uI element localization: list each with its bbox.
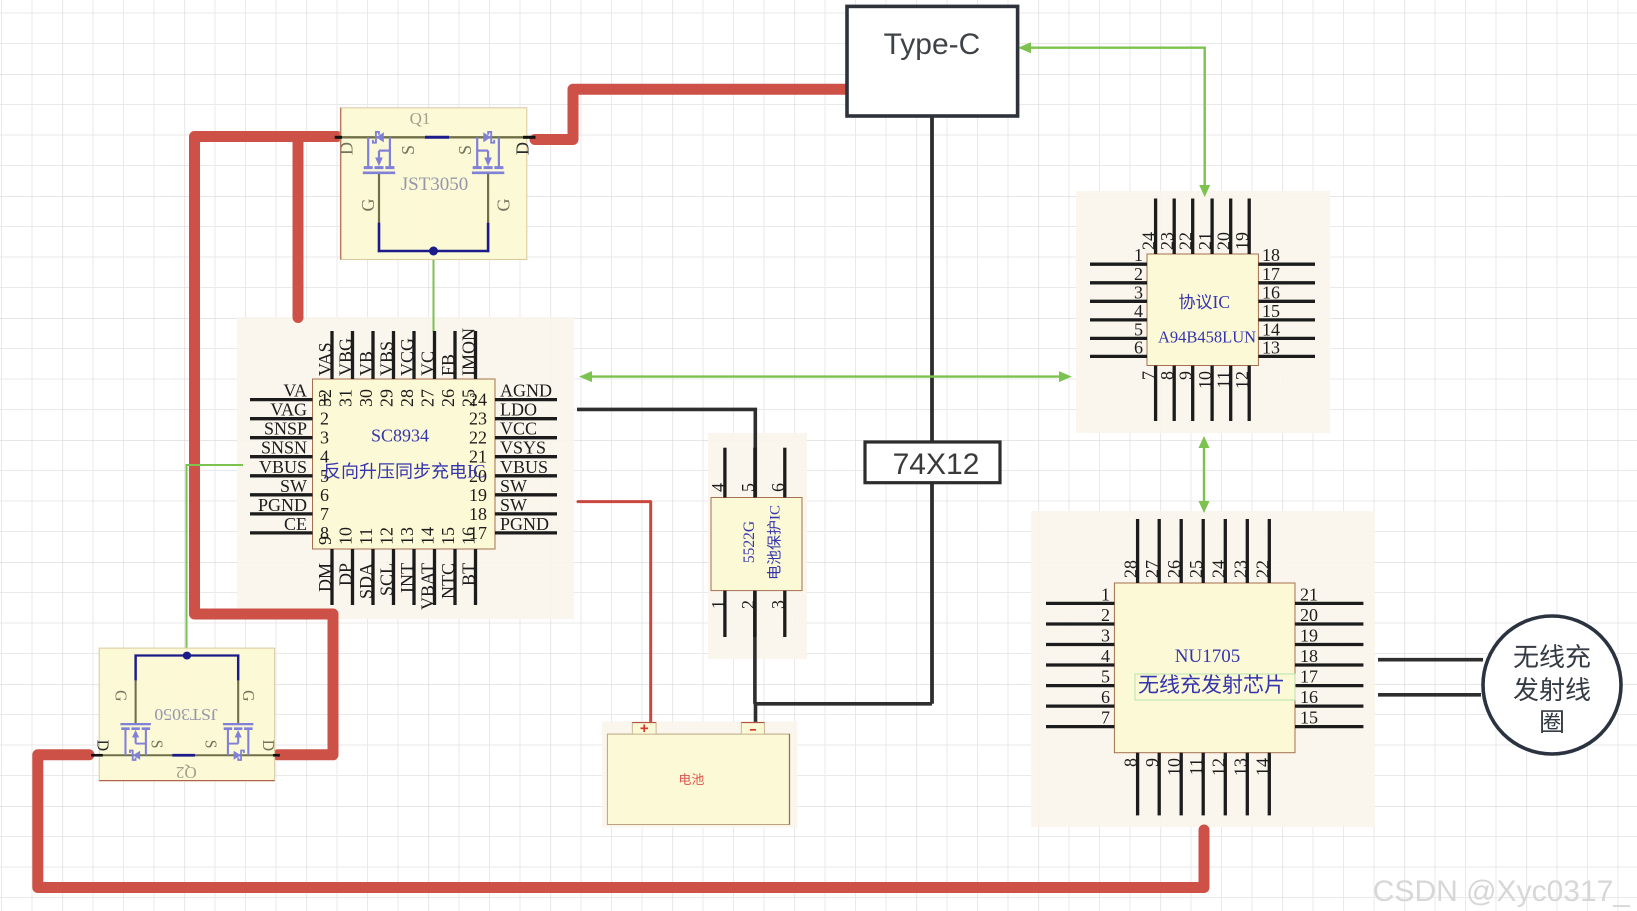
svg-text:SNSN: SNSN xyxy=(261,438,307,458)
wire: black Type-C down to junction xyxy=(930,116,934,704)
svg-text:23: 23 xyxy=(1157,232,1177,250)
SC8934 pin 25 IMON xyxy=(474,331,477,379)
protocol IC pin 19 xyxy=(1248,199,1251,255)
svg-text:7: 7 xyxy=(1139,371,1159,380)
NU1705 pin 23 xyxy=(1246,519,1249,583)
NU1705 pin 16 xyxy=(1295,704,1363,707)
label 74X12 box xyxy=(865,442,1000,483)
green wire Q2 gates to SC8934 VBUS xyxy=(187,465,244,654)
svg-text:A94B458LUN: A94B458LUN xyxy=(1158,328,1256,347)
svg-text:30: 30 xyxy=(356,389,376,407)
svg-text:23: 23 xyxy=(1230,560,1250,578)
svg-text:2: 2 xyxy=(1134,264,1143,284)
svg-text:3: 3 xyxy=(320,428,329,448)
svg-text:8: 8 xyxy=(1121,758,1141,767)
protocol IC pin 16 xyxy=(1258,300,1315,303)
SC8934 pin 31 VBG xyxy=(351,331,354,379)
Q1 gate junction xyxy=(429,247,438,256)
SC8934 pin 20 VBUS xyxy=(495,474,557,477)
protocol IC pin 20 xyxy=(1229,199,1232,255)
protocol IC pin 21 xyxy=(1210,199,1213,255)
svg-text:9: 9 xyxy=(1176,371,1196,380)
svg-text:16: 16 xyxy=(1300,687,1318,707)
SC8934 pin 6 SW xyxy=(250,493,313,496)
NU1705 pin 27 xyxy=(1158,519,1161,583)
protocol IC pin 9 xyxy=(1191,366,1194,422)
svg-text:29: 29 xyxy=(377,389,397,407)
svg-text:CE: CE xyxy=(284,514,307,534)
protocol IC pin 24 xyxy=(1154,199,1157,255)
SC8934 pin 2 VAG xyxy=(250,417,313,420)
Q1 left D stub xyxy=(335,136,342,139)
SC8934 pin 3 SNSP xyxy=(250,436,313,439)
svg-text:10: 10 xyxy=(336,527,356,545)
5522G pin 4 xyxy=(723,448,726,498)
svg-text:DM: DM xyxy=(315,563,335,592)
svg-text:SW: SW xyxy=(500,476,527,496)
SC8934 pin 27 VC xyxy=(433,331,436,379)
svg-text:NTC: NTC xyxy=(438,563,458,599)
Q1 right D stub xyxy=(523,136,536,139)
SC8934 pin 18 SW xyxy=(495,512,557,515)
svg-text:D: D xyxy=(513,142,533,155)
svg-text:JST3050: JST3050 xyxy=(401,174,469,195)
svg-text:BT: BT xyxy=(459,563,479,586)
svg-text:24: 24 xyxy=(1208,560,1228,578)
svg-text:31: 31 xyxy=(336,389,356,407)
svg-text:5: 5 xyxy=(1134,319,1143,339)
SC8934 pin 24 AGND xyxy=(495,398,557,401)
svg-text:D: D xyxy=(337,142,357,155)
svg-text:IC: IC xyxy=(467,463,486,483)
NU1705 pin 4 xyxy=(1046,663,1114,666)
NU1705 pin 25 xyxy=(1202,519,1205,583)
SC8934 pin 1 VA xyxy=(250,398,313,401)
protocol IC pin 18 xyxy=(1258,263,1315,266)
NU1705 pin 28 xyxy=(1136,519,1139,583)
svg-text:2: 2 xyxy=(320,409,329,429)
NU1705 description selection box xyxy=(1135,674,1295,700)
svg-text:CSDN @Xyc0317_: CSDN @Xyc0317_ xyxy=(1373,875,1632,908)
NU1705 pin 9 xyxy=(1158,753,1161,816)
NU1705 pin 1 xyxy=(1046,602,1114,605)
SC8934 pin 8 CE xyxy=(250,531,313,534)
5522G pin 5 xyxy=(753,448,756,498)
NU1705 pin 24 xyxy=(1224,519,1227,583)
svg-text:SDA: SDA xyxy=(356,563,376,599)
svg-text:VA: VA xyxy=(283,381,307,401)
svg-text:6: 6 xyxy=(320,485,329,505)
NU1705 pin 11 xyxy=(1202,753,1205,816)
svg-text:5: 5 xyxy=(738,483,758,492)
svg-text:20: 20 xyxy=(1214,232,1234,250)
svg-text:G: G xyxy=(494,199,514,212)
Q1 right MOSFET xyxy=(498,137,500,166)
NU1705 pin 10 xyxy=(1180,753,1183,816)
NU1705 pin 13 xyxy=(1246,753,1249,816)
Q1 left MOSFET xyxy=(367,137,369,166)
svg-text:14: 14 xyxy=(1262,319,1280,339)
svg-text:S: S xyxy=(398,145,418,155)
svg-text:22: 22 xyxy=(1176,232,1196,250)
IC protocol A94B458LUN body xyxy=(1147,254,1258,366)
NU1705 pin 19 xyxy=(1295,643,1363,646)
svg-text:26: 26 xyxy=(438,389,458,407)
svg-text:G: G xyxy=(358,199,378,212)
svg-text:AGND: AGND xyxy=(500,381,552,401)
SC8934 pin 9 DM xyxy=(330,549,333,605)
protocol IC pin 17 xyxy=(1258,281,1315,284)
SC8934 pin 22 VCC xyxy=(495,436,557,439)
wire: thick red Q2 left D big bottom loop to NU1705 pin 11 xyxy=(38,755,1204,888)
svg-text:17: 17 xyxy=(1300,667,1318,687)
svg-text:20: 20 xyxy=(1300,605,1318,625)
protocol IC pin 13 xyxy=(1258,355,1315,358)
svg-text:19: 19 xyxy=(1300,626,1318,646)
svg-text:5522G: 5522G xyxy=(741,521,758,563)
wire: thick red Q1 right D to Type-C xyxy=(535,89,849,139)
NU1705 description 无线充发射芯片 xyxy=(1139,674,1283,693)
wire: coil connection 2 xyxy=(1378,693,1481,697)
NU1705 pin 8 xyxy=(1136,753,1139,816)
svg-text:23: 23 xyxy=(469,409,487,429)
SC8934 pin 7 PGND xyxy=(250,512,313,515)
Q1 D-S rail xyxy=(335,136,532,138)
battery - tab xyxy=(741,722,764,734)
svg-text:27: 27 xyxy=(418,389,438,407)
coil 无线充发射线圈 xyxy=(1483,616,1621,754)
svg-text:12: 12 xyxy=(1208,758,1228,776)
protocol IC pin 2 xyxy=(1090,281,1147,284)
svg-text:15: 15 xyxy=(1262,301,1280,321)
svg-text:9: 9 xyxy=(1142,758,1162,767)
SC8934 pin 5 VBUS xyxy=(250,474,313,477)
svg-text:FB: FB xyxy=(438,354,458,376)
svg-text:VC: VC xyxy=(418,351,438,376)
svg-text:11: 11 xyxy=(356,528,376,545)
svg-text:15: 15 xyxy=(1300,708,1318,728)
svg-text:SW: SW xyxy=(500,495,527,515)
svg-text:25: 25 xyxy=(1186,560,1206,578)
SC8934 pin 13 INT xyxy=(412,549,415,605)
svg-text:19: 19 xyxy=(1232,232,1252,250)
svg-text:PGND: PGND xyxy=(258,495,307,515)
svg-text:18: 18 xyxy=(1262,245,1280,265)
NU1705 pin 15 xyxy=(1295,725,1363,728)
svg-text:17: 17 xyxy=(1262,264,1280,284)
NU1705 pin 3 xyxy=(1046,643,1114,646)
svg-text:12: 12 xyxy=(1232,371,1252,389)
svg-text:4: 4 xyxy=(320,447,329,467)
SC8934 pin 10 DP xyxy=(351,549,354,605)
svg-text:17: 17 xyxy=(469,523,487,543)
protocol IC label 协议IC xyxy=(1179,294,1212,310)
Q1 gate common wire xyxy=(378,250,490,253)
svg-text:6: 6 xyxy=(1134,337,1143,357)
connector Type-C box xyxy=(847,6,1018,116)
SC8934 description 反向升压同步充电IC xyxy=(324,462,466,479)
svg-text:VCG: VCG xyxy=(397,338,417,376)
NU1705 pin 2 xyxy=(1046,622,1114,625)
SC8934 pin 15 NTC xyxy=(453,549,456,605)
wire: thin red SC8934 SW to battery + xyxy=(578,502,651,723)
svg-text:1: 1 xyxy=(1134,245,1143,265)
svg-text:SC8934: SC8934 xyxy=(371,426,429,446)
5522G pin 1 xyxy=(723,591,726,637)
svg-text:4: 4 xyxy=(1101,646,1110,666)
protocol IC pin 12 xyxy=(1248,366,1251,422)
NU1705 pin 22 xyxy=(1268,519,1271,583)
NU1705 pin 5 xyxy=(1046,684,1114,687)
svg-text:Q2: Q2 xyxy=(176,763,197,782)
IC U? SC8934 body xyxy=(313,379,496,549)
svg-text:26: 26 xyxy=(1164,560,1184,578)
svg-text:22: 22 xyxy=(469,428,487,448)
svg-text:19: 19 xyxy=(469,485,487,505)
protocol IC pin 4 xyxy=(1090,318,1147,321)
SC8934 pin 14 VBAT xyxy=(433,549,436,605)
svg-text:14: 14 xyxy=(1252,758,1272,776)
SC8934 pin 30 VB xyxy=(371,331,374,379)
svg-text:13: 13 xyxy=(1262,337,1280,357)
protocol IC pin 3 xyxy=(1090,300,1147,303)
wire: black LDO to 5522G/battery/junction xyxy=(577,409,755,497)
svg-text:24: 24 xyxy=(469,390,487,410)
NU1705 pin 17 xyxy=(1295,684,1363,687)
Q1 gate leads xyxy=(378,174,380,223)
svg-text:4: 4 xyxy=(1134,301,1143,321)
svg-text:6: 6 xyxy=(768,483,788,492)
svg-text:16: 16 xyxy=(1262,282,1280,302)
svg-text:1: 1 xyxy=(708,600,728,609)
protocol IC pin 15 xyxy=(1258,318,1315,321)
svg-text:LDO: LDO xyxy=(500,400,537,420)
svg-text:SW: SW xyxy=(280,476,307,496)
svg-text:27: 27 xyxy=(1142,560,1162,578)
svg-text:VB: VB xyxy=(356,351,376,376)
svg-text:VAS: VAS xyxy=(315,342,335,376)
wire: thick red Q1 left D down-around to Q2 right D xyxy=(195,137,338,755)
svg-text:18: 18 xyxy=(469,504,487,524)
svg-text:28: 28 xyxy=(1121,560,1141,578)
svg-text:1: 1 xyxy=(1101,584,1110,604)
protocol IC pin 7 xyxy=(1154,366,1157,422)
transistor Q1 JST3050 block xyxy=(335,108,536,260)
svg-text:74X12: 74X12 xyxy=(893,448,980,481)
SC8934 pin 16 BT xyxy=(474,549,477,605)
svg-text:2: 2 xyxy=(1101,605,1110,625)
NU1705 pin 20 xyxy=(1295,622,1363,625)
svg-text:PGND: PGND xyxy=(500,514,549,534)
SC8934 pin 17 PGND xyxy=(495,531,557,534)
SC8934 pin 12 SCL xyxy=(392,549,395,605)
svg-text:13: 13 xyxy=(1230,758,1250,776)
SC8934 pin 21 VSYS xyxy=(495,455,557,458)
NU1705 pin 7 xyxy=(1046,725,1114,728)
svg-text:VBS: VBS xyxy=(377,341,397,376)
green arrow Type-C to protocol IC xyxy=(1031,48,1205,186)
svg-text:2: 2 xyxy=(738,600,758,609)
5522G pin 6 xyxy=(783,448,786,498)
svg-text:28: 28 xyxy=(397,389,417,407)
5522G description 电池保护IC xyxy=(767,521,781,578)
svg-text:VSYS: VSYS xyxy=(500,438,546,458)
svg-text:IC: IC xyxy=(1213,292,1231,312)
battery + sign xyxy=(641,727,649,729)
svg-text:4: 4 xyxy=(708,483,728,492)
svg-text:DP: DP xyxy=(336,563,356,586)
svg-text:14: 14 xyxy=(418,527,438,545)
protocol IC pin 6 xyxy=(1090,355,1147,358)
svg-text:Q1: Q1 xyxy=(410,109,431,128)
green wire Q1 gates to SC8934 VC xyxy=(433,253,435,332)
transistor Q2 JST3050 block (rotated 180) xyxy=(99,648,274,781)
svg-text:13: 13 xyxy=(397,527,417,545)
svg-text:VBG: VBG xyxy=(336,338,356,376)
svg-text:6: 6 xyxy=(1101,687,1110,707)
svg-text:11: 11 xyxy=(1214,371,1234,388)
protocol IC pin 10 xyxy=(1210,366,1213,422)
battery - sign xyxy=(750,729,756,731)
protocol IC pin 23 xyxy=(1173,199,1176,255)
svg-text:5: 5 xyxy=(1101,667,1110,687)
protocol IC pin 14 xyxy=(1258,337,1315,340)
component canvas regions xyxy=(237,317,574,619)
NU1705 pin 6 xyxy=(1046,704,1114,707)
svg-text:SCL: SCL xyxy=(377,563,397,596)
SC8934 pin 11 SDA xyxy=(371,549,374,605)
svg-text:10: 10 xyxy=(1195,371,1215,389)
svg-text:IMON: IMON xyxy=(459,328,479,376)
svg-text:Type-C: Type-C xyxy=(884,28,981,61)
svg-text:3: 3 xyxy=(1134,282,1143,302)
svg-text:22: 22 xyxy=(1252,560,1272,578)
svg-text:12: 12 xyxy=(377,527,397,545)
battery 电池 body xyxy=(607,734,789,824)
NU1705 pin 14 xyxy=(1268,753,1271,816)
5522G pin 2 xyxy=(753,591,756,637)
IC NU1705 body xyxy=(1114,583,1295,753)
svg-text:8: 8 xyxy=(1157,371,1177,380)
svg-text:15: 15 xyxy=(438,527,458,545)
svg-text:S: S xyxy=(455,145,475,155)
green double arrow protocol IC to NU1705 xyxy=(1203,445,1205,504)
protocol IC pin 11 xyxy=(1229,366,1232,422)
svg-text:10: 10 xyxy=(1164,758,1184,776)
svg-text:INT: INT xyxy=(397,563,417,593)
svg-text:3: 3 xyxy=(768,600,788,609)
5522G pin 3 xyxy=(783,591,786,637)
wire: coil connection 1 xyxy=(1378,658,1483,662)
protocol IC pin 1 xyxy=(1090,263,1147,266)
svg-text:VCC: VCC xyxy=(500,419,537,439)
SC8934 pin 29 VBS xyxy=(392,331,395,379)
wire: thick red stub branch down to SC8934 region xyxy=(293,137,304,318)
green double arrow SC8934 to protocol IC xyxy=(590,375,1061,377)
svg-text:8: 8 xyxy=(320,523,329,543)
svg-text:3: 3 xyxy=(1101,626,1110,646)
svg-text:7: 7 xyxy=(1101,708,1110,728)
svg-text:IC: IC xyxy=(768,505,784,520)
svg-text:VBUS: VBUS xyxy=(500,457,548,477)
protocol IC pin 5 xyxy=(1090,337,1147,340)
svg-text:11: 11 xyxy=(1186,758,1206,775)
NU1705 pin 18 xyxy=(1295,663,1363,666)
svg-text:VBUS: VBUS xyxy=(259,457,307,477)
SC8934 pin 4 SNSN xyxy=(250,455,313,458)
Q1 S-S navy link xyxy=(425,136,449,139)
SC8934 pin 19 SW xyxy=(495,493,557,496)
NU1705 pin 21 xyxy=(1295,602,1363,605)
SC8934 pin 26 FB xyxy=(453,331,456,379)
svg-text:1: 1 xyxy=(320,390,329,410)
IC 5522G body xyxy=(711,498,802,591)
protocol IC pin 22 xyxy=(1191,199,1194,255)
svg-text:21: 21 xyxy=(1195,232,1215,250)
svg-text:21: 21 xyxy=(1300,584,1318,604)
SC8934 pin 32 VAS xyxy=(330,331,333,379)
NU1705 pin 12 xyxy=(1224,753,1227,816)
svg-text:VBAT: VBAT xyxy=(418,563,438,610)
SC8934 pin 28 VCG xyxy=(412,331,415,379)
svg-text:NU1705: NU1705 xyxy=(1175,646,1240,667)
battery label 电池 xyxy=(680,773,704,785)
svg-text:18: 18 xyxy=(1300,646,1318,666)
svg-text:SNSP: SNSP xyxy=(264,419,307,439)
NU1705 pin 26 xyxy=(1180,519,1183,583)
svg-text:VAG: VAG xyxy=(270,400,307,420)
protocol IC pin 8 xyxy=(1173,366,1176,422)
SC8934 pin 23 LDO xyxy=(495,417,557,420)
svg-text:7: 7 xyxy=(320,504,329,524)
battery + tab xyxy=(632,722,656,734)
